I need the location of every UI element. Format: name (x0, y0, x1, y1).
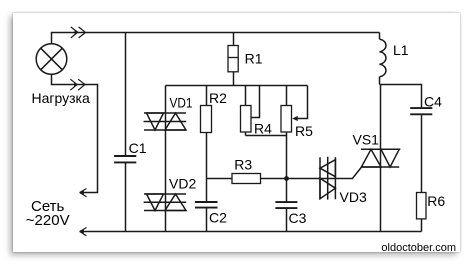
svg-text:C1: C1 (129, 140, 147, 156)
svg-text:R1: R1 (245, 51, 263, 67)
svg-text:Нагрузка: Нагрузка (32, 90, 90, 106)
svg-text:R2: R2 (209, 90, 227, 106)
svg-text:C4: C4 (424, 94, 442, 110)
svg-text:VD2: VD2 (169, 176, 196, 192)
svg-text:R3: R3 (234, 157, 252, 173)
svg-text:C3: C3 (289, 210, 307, 226)
svg-text:~220V: ~220V (26, 212, 70, 229)
svg-text:VD3: VD3 (340, 189, 367, 205)
svg-text:oldoctober.com: oldoctober.com (381, 242, 456, 254)
svg-text:R5: R5 (295, 123, 313, 139)
svg-text:VS1: VS1 (353, 131, 380, 147)
svg-text:R4: R4 (254, 121, 272, 137)
svg-text:L1: L1 (393, 42, 409, 58)
svg-text:C2: C2 (209, 210, 227, 226)
svg-text:R6: R6 (427, 193, 445, 209)
svg-text:VD1: VD1 (170, 94, 193, 110)
